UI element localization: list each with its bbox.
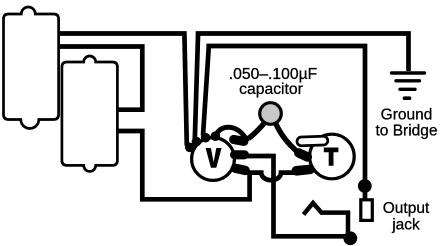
svg-text:capacitor: capacitor bbox=[239, 81, 303, 98]
tone pot label T bbox=[324, 148, 339, 166]
ground symbol bar 3 bbox=[400, 88, 415, 91]
volume pot body bbox=[192, 138, 235, 181]
wire: volume lug1 to tone lug1 with crossover hop bbox=[246, 173, 295, 181]
jumper: volume casing dot to lug3 (arc over pot) bbox=[216, 127, 248, 141]
tone pot body bbox=[310, 134, 355, 179]
volume casing solder dot 3 bbox=[201, 133, 211, 143]
ground symbol bar 4 bbox=[405, 96, 410, 100]
wire: volume casing to ground (bridge) bbox=[195, 34, 409, 140]
svg-text:to Bridge: to Bridge bbox=[375, 123, 437, 140]
wire: P2 lead D down, across and up to volume lug1 bbox=[118, 131, 250, 199]
ground symbol bar 2 bbox=[396, 79, 420, 82]
volume casing solder dot 1 bbox=[185, 143, 195, 153]
volume pot label V bbox=[206, 148, 222, 168]
wire: pickup P1 lead A to volume pot casing dot bbox=[57, 34, 187, 146]
tone lug3 (top, unconnected white capsule) bbox=[297, 136, 328, 146]
wire: volume wiper to jack tip bbox=[246, 156, 350, 236]
volume casing solder dot 2 bbox=[192, 137, 202, 147]
svg-text:jack: jack bbox=[391, 217, 420, 234]
capacitor lead right (to tone lug2) bbox=[275, 122, 297, 152]
volume lug1 (bottom) bbox=[230, 163, 251, 176]
pickup P1 (neck soapbar) bbox=[4, 7, 59, 129]
capacitor body bbox=[260, 103, 282, 125]
capacitor lead left (to volume lug3) bbox=[249, 122, 266, 139]
tone lug2 (middle, black) bbox=[292, 147, 313, 164]
svg-text:Output: Output bbox=[383, 200, 430, 217]
ground symbol bar 1 bbox=[392, 71, 425, 74]
volume casing solder dot 4 bbox=[211, 131, 221, 141]
output jack tip spring contact bbox=[304, 203, 349, 235]
volume lug3 (top) bbox=[228, 134, 249, 146]
output jack tip junction dot bbox=[343, 231, 357, 245]
wire: volume casing to output jack sleeve bbox=[203, 46, 365, 200]
wire: P1 lead B to P2 lead C (series link) bbox=[57, 47, 142, 110]
output jack body bbox=[361, 200, 373, 221]
tone lug1 (bottom, black) bbox=[291, 164, 315, 176]
pickup P2 (bridge soapbar) bbox=[62, 56, 118, 171]
svg-text:Ground: Ground bbox=[381, 107, 433, 124]
output jack sleeve junction dot bbox=[358, 179, 372, 193]
volume lug2 (wiper) bbox=[230, 150, 249, 159]
